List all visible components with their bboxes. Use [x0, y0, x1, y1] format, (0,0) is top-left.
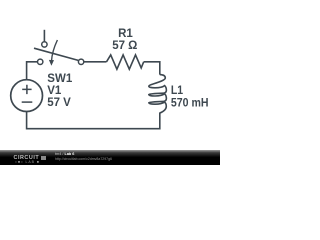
svg-text:L1: L1	[171, 85, 184, 97]
CircuitLab logo	[14, 156, 40, 161]
V1 plus sign	[22, 85, 31, 94]
svg-text:57 Ω: 57 Ω	[112, 40, 137, 52]
switch arrow head	[49, 60, 54, 66]
resistor R1 zigzag	[107, 55, 144, 69]
wire: resistor to top-right corner, down to inductor	[144, 62, 160, 75]
switch SW1 left terminal	[38, 59, 43, 64]
wire: switch top stub	[43, 30, 45, 42]
svg-text:V1: V1	[47, 85, 62, 97]
switch SW1 top terminal	[42, 42, 47, 47]
wire: switch to resistor	[84, 61, 107, 63]
svg-text:570 mH: 570 mH	[171, 98, 209, 110]
wire: left rail from switch to V1 top	[27, 62, 38, 80]
footer bar	[0, 150, 220, 165]
footer url	[55, 158, 112, 161]
switch SW1 blade	[34, 48, 78, 60]
wire: V1 bottom to bottom rail	[27, 112, 160, 129]
inductor L1 coil	[149, 75, 167, 113]
svg-text:R1: R1	[118, 28, 133, 40]
switch SW1 actuation arrow	[52, 40, 58, 61]
V1 minus sign	[22, 101, 33, 103]
switch SW1 right terminal	[78, 59, 83, 64]
svg-text:SW1: SW1	[47, 73, 73, 85]
voltage source V1	[11, 80, 43, 112]
svg-text:57 V: 57 V	[47, 97, 71, 109]
footer circuit title	[55, 153, 74, 157]
